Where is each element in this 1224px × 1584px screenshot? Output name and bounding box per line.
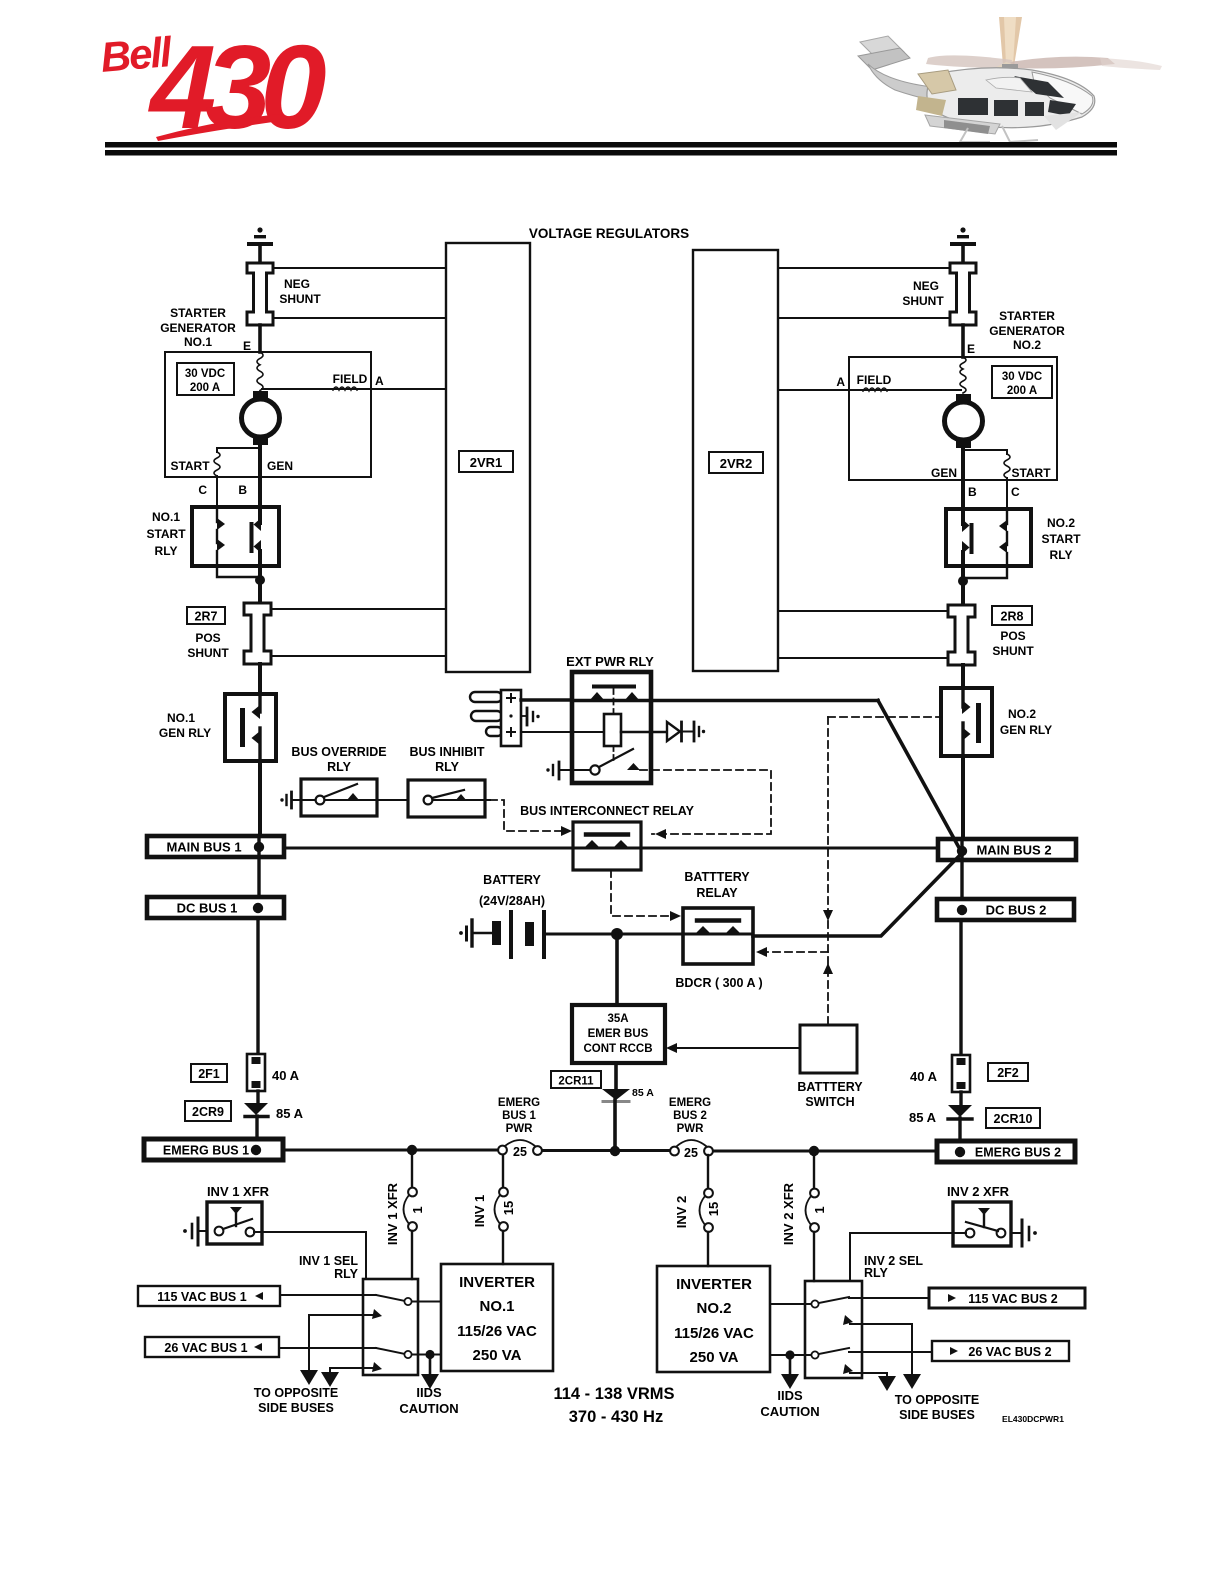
INV 2 SEL RLY box bbox=[805, 1281, 862, 1378]
label TO OPPOSITE SIDE BUSES right bbox=[895, 1393, 980, 1422]
115 VAC BUS 1 bar bbox=[138, 1286, 280, 1306]
label BATTERY (24V/28AH) bbox=[479, 873, 545, 908]
30 VDC 200 A rating box bbox=[177, 363, 234, 395]
dashed arrow into interconnect right side bbox=[655, 829, 666, 839]
2R8 designator box bbox=[992, 606, 1032, 625]
ground at plug center pin bbox=[521, 708, 540, 725]
label STARTER GENERATOR NO.2 bbox=[989, 309, 1065, 352]
svg-text:EMERG BUS 1: EMERG BUS 1 bbox=[163, 1144, 249, 1158]
label STARTER GENERATOR NO.1 bbox=[160, 306, 236, 349]
INVERTER NO.2 box bbox=[657, 1266, 770, 1372]
sel rly 1 contact row 1 bbox=[363, 1295, 441, 1305]
svg-text:NEG: NEG bbox=[284, 277, 310, 291]
wire battery switch to RCCB with arrow bbox=[666, 1043, 800, 1053]
svg-text:E: E bbox=[967, 342, 975, 356]
30 VDC 200 A rating box (right) bbox=[992, 366, 1052, 398]
svg-text:SHUNT: SHUNT bbox=[279, 292, 321, 306]
svg-text:2R7: 2R7 bbox=[195, 610, 218, 624]
Bell 430 logo bbox=[99, 21, 327, 154]
breaker INV 1 XFR 1 (vertical) bbox=[404, 1150, 417, 1279]
label NO.2 GEN RLY bbox=[1000, 707, 1052, 737]
svg-text:START: START bbox=[170, 459, 210, 473]
ground for inv 2 xfr switch bbox=[1011, 1220, 1037, 1246]
header double rule bbox=[105, 142, 1117, 156]
diode 2CR10 bbox=[948, 1105, 972, 1119]
label NO.1 GEN RLY bbox=[159, 711, 211, 740]
wire diode to emerg bus 1 bbox=[255, 1116, 258, 1140]
svg-text:2R8: 2R8 bbox=[1001, 610, 1024, 624]
svg-text:250 VA: 250 VA bbox=[690, 1349, 739, 1366]
label BUS INHIBIT RLY bbox=[410, 745, 485, 774]
wire plug top to ext pwr rly bbox=[521, 698, 572, 701]
label EMERG BUS 2 PWR bbox=[669, 1097, 711, 1135]
INV 1 SEL RLY box bbox=[363, 1279, 418, 1375]
2R7 designator box bbox=[187, 607, 225, 624]
svg-text:EMERG: EMERG bbox=[669, 1097, 711, 1109]
label BATTTERY RELAY bbox=[684, 870, 750, 900]
EXT PWR RLY box bbox=[572, 672, 651, 783]
ground G2 (top right) bbox=[950, 227, 976, 263]
start coil squiggle (right) bbox=[1004, 454, 1010, 478]
label INV 2 SEL RLY bbox=[864, 1254, 923, 1280]
svg-text:NO.2: NO.2 bbox=[696, 1300, 731, 1317]
svg-text:30 VDC: 30 VDC bbox=[185, 368, 225, 380]
diode at coil output bbox=[667, 722, 692, 741]
main bus tie wire (bus1 to bus2) bbox=[284, 847, 938, 850]
motor M2 bbox=[945, 394, 983, 448]
svg-text:VOLTAGE REGULATORS: VOLTAGE REGULATORS bbox=[529, 226, 689, 241]
2VR2 designator box bbox=[709, 452, 763, 473]
svg-text:A: A bbox=[375, 374, 384, 388]
svg-text:CAUTION: CAUTION bbox=[760, 1404, 819, 1419]
svg-text:2F2: 2F2 bbox=[997, 1066, 1019, 1080]
sel rly 2 contact row 2 (arrow) bbox=[843, 1315, 862, 1325]
BATTERY SWITCH box bbox=[800, 1025, 857, 1073]
svg-text:MAIN BUS 1: MAIN BUS 1 bbox=[166, 840, 241, 855]
sel rly 1 contact row 3 bbox=[363, 1348, 441, 1358]
MAIN BUS 2 bar bbox=[938, 839, 1076, 860]
svg-text:NO.1: NO.1 bbox=[184, 335, 212, 349]
EMERG BUS 2 bar bbox=[937, 1141, 1075, 1162]
svg-text:15: 15 bbox=[706, 1202, 721, 1216]
sel rly 1 contact row 2 (arrow) bbox=[363, 1309, 382, 1319]
label NEG SHUNT (right) bbox=[902, 279, 944, 308]
svg-text:200 A: 200 A bbox=[190, 382, 220, 394]
svg-text:BUS INHIBIT: BUS INHIBIT bbox=[410, 745, 485, 759]
field wire to 2VR1 bbox=[262, 388, 446, 390]
battery relay output wire bbox=[753, 853, 962, 936]
svg-text:BUS 1: BUS 1 bbox=[502, 1110, 536, 1122]
wire 115 vac bus 1 to sel rly bbox=[280, 1294, 363, 1296]
BUS INHIBIT RLY box bbox=[408, 780, 485, 817]
gen rly 1 contact bbox=[240, 694, 260, 761]
junction dot inverter1 input bbox=[425, 1350, 434, 1359]
wire neg shunt to 2VR1 (upper) bbox=[274, 267, 446, 269]
wire inv1 xfr switch to sel rly bbox=[254, 1232, 366, 1279]
junction dot 2CR11 tap bbox=[610, 1146, 620, 1156]
start relay contact C path bbox=[217, 507, 225, 566]
start branch wire bbox=[217, 448, 260, 452]
svg-text:85 A: 85 A bbox=[909, 1110, 937, 1125]
battery relay bar bbox=[697, 918, 739, 922]
svg-text:A: A bbox=[836, 375, 845, 389]
svg-text:TO OPPOSITE: TO OPPOSITE bbox=[895, 1393, 980, 1407]
svg-text:114 - 138 VRMS: 114 - 138 VRMS bbox=[553, 1385, 674, 1403]
svg-text:BUS INTERCONNECT RELAY: BUS INTERCONNECT RELAY bbox=[520, 804, 695, 818]
pos shunt 2R7 (I-beam) bbox=[244, 603, 271, 664]
NO.1 START RLY box bbox=[192, 507, 279, 566]
wire sel rly to 26 vac bus 2 bbox=[862, 1351, 932, 1353]
inv 1 xfr switch contacts bbox=[215, 1207, 255, 1236]
opposite-bus wires right bbox=[862, 1324, 921, 1391]
dashed interconnect bottom to battery relay bbox=[611, 870, 674, 916]
svg-text:SWITCH: SWITCH bbox=[805, 1095, 854, 1109]
emergency bus tie wire bbox=[283, 1150, 937, 1151]
svg-text:1: 1 bbox=[812, 1206, 827, 1213]
junction below start relay 2 bbox=[958, 566, 1007, 605]
start relay 2 contact B path with bar bbox=[962, 509, 974, 566]
armature coil from E (right) bbox=[960, 357, 966, 393]
svg-text:2F1: 2F1 bbox=[198, 1067, 220, 1081]
INV 2 XFR switch box bbox=[953, 1202, 1011, 1246]
relay aux switch bbox=[590, 749, 640, 775]
diode 2CR11 bbox=[602, 1089, 630, 1102]
svg-text:NO.1: NO.1 bbox=[167, 711, 195, 725]
dashed arrow into interconnect left side bbox=[561, 826, 572, 836]
svg-text:1: 1 bbox=[410, 1206, 425, 1213]
motor M1 (circle with terminals) bbox=[242, 391, 280, 445]
svg-text:STARTER: STARTER bbox=[170, 306, 226, 320]
label IIDS CAUTION left bbox=[399, 1385, 458, 1416]
svg-text:INV 1 XFR: INV 1 XFR bbox=[385, 1182, 400, 1245]
svg-text:EXT PWR RLY: EXT PWR RLY bbox=[566, 654, 654, 669]
2F1 designator box bbox=[191, 1064, 227, 1082]
svg-text:RLY: RLY bbox=[155, 544, 178, 558]
svg-text:SHUNT: SHUNT bbox=[992, 644, 1034, 658]
start relay contact B path with bar bbox=[250, 507, 262, 566]
start coil to box bottom (right) bbox=[1006, 478, 1008, 509]
label EMERG BUS 1 PWR bbox=[498, 1097, 540, 1135]
svg-text:B: B bbox=[238, 483, 247, 497]
field wire from 2VR2 bbox=[778, 389, 961, 391]
svg-text:FIELD: FIELD bbox=[857, 373, 892, 387]
start relay 2 contact C path bbox=[999, 509, 1007, 566]
svg-text:115/26 VAC: 115/26 VAC bbox=[674, 1325, 754, 1342]
sel rly 2 contact row 3 bbox=[811, 1348, 862, 1359]
svg-text:BATTTERY: BATTTERY bbox=[684, 870, 750, 884]
svg-text:35A: 35A bbox=[607, 1013, 628, 1025]
svg-text:E: E bbox=[243, 339, 251, 353]
svg-text:115/26 VAC: 115/26 VAC bbox=[457, 1323, 537, 1340]
opposite-bus wires left bbox=[300, 1315, 363, 1387]
start branch wire (right) bbox=[963, 450, 1007, 454]
svg-text:2CR9: 2CR9 bbox=[192, 1105, 224, 1119]
2F2 designator box bbox=[988, 1063, 1028, 1081]
wire pos shunt to 2VR1 (upper) bbox=[271, 608, 446, 610]
diode 2CR9 bbox=[244, 1103, 268, 1117]
svg-text:26 VAC BUS 1: 26 VAC BUS 1 bbox=[164, 1341, 247, 1355]
wire gen rly to main bus 1 bbox=[258, 761, 262, 838]
svg-text:250 VA: 250 VA bbox=[473, 1347, 522, 1364]
battery relay arrows bbox=[695, 926, 741, 934]
svg-text:MAIN BUS 2: MAIN BUS 2 bbox=[976, 843, 1051, 858]
dashed arrow into battery relay left bbox=[670, 911, 681, 921]
svg-text:SHUNT: SHUNT bbox=[187, 646, 229, 660]
wire pos shunt to 2VR1 (lower) bbox=[271, 655, 446, 657]
label 114 - 138 VRMS / 370 - 430 Hz bbox=[553, 1385, 674, 1426]
svg-text:BATTTERY: BATTTERY bbox=[797, 1080, 863, 1094]
sel rly 2 contact row 1 bbox=[811, 1297, 862, 1308]
115 VAC BUS 2 bar bbox=[929, 1288, 1085, 1308]
2VR1 designator box bbox=[459, 451, 513, 472]
svg-text:PWR: PWR bbox=[506, 1123, 534, 1135]
fuse 2F2 symbol bbox=[952, 1055, 970, 1092]
wire neg shunt to 2VR1 (lower) bbox=[274, 317, 446, 319]
svg-text:25: 25 bbox=[513, 1145, 527, 1159]
svg-text:CAUTION: CAUTION bbox=[399, 1401, 458, 1416]
svg-text:BUS 2: BUS 2 bbox=[673, 1110, 707, 1122]
dashed bus inhibit to interconnect bbox=[490, 800, 565, 831]
junction dot emerg bus 2 bbox=[955, 1147, 965, 1157]
svg-text:STARTER: STARTER bbox=[999, 309, 1055, 323]
dashed control trunk x828 bbox=[823, 717, 833, 1025]
switch ground (left of box) bbox=[546, 762, 589, 779]
breaker 25 (emerg bus 1 pwr) bbox=[498, 1140, 542, 1159]
wire dc bus 2 to fuse 2F2 bbox=[959, 920, 962, 1055]
wire gen rly 2 to main bus 2 bbox=[961, 756, 965, 840]
junction dot dc bus 2 bbox=[957, 905, 967, 915]
dashed actuator link bbox=[613, 688, 615, 714]
label POS SHUNT (right) bbox=[992, 629, 1034, 658]
svg-text:SIDE BUSES: SIDE BUSES bbox=[258, 1401, 334, 1415]
svg-text:RLY: RLY bbox=[334, 1267, 359, 1281]
wire shunt to E (right) bbox=[961, 325, 965, 357]
svg-text:GENERATOR: GENERATOR bbox=[989, 324, 1065, 338]
svg-text:START: START bbox=[1041, 532, 1081, 546]
wire RCCB to diode 2CR11 bbox=[614, 1063, 618, 1089]
svg-text:26 VAC BUS 2: 26 VAC BUS 2 bbox=[968, 1345, 1051, 1359]
svg-text:INV 1 XFR: INV 1 XFR bbox=[207, 1184, 270, 1199]
svg-text:40 A: 40 A bbox=[910, 1069, 938, 1084]
breaker INV 2 XFR 1 (vertical) bbox=[806, 1151, 819, 1281]
svg-text:NO.1: NO.1 bbox=[479, 1298, 514, 1315]
svg-text:RLY: RLY bbox=[327, 760, 352, 774]
svg-text:RLY: RLY bbox=[435, 760, 460, 774]
ext pwr rly top contact bar bbox=[594, 685, 634, 689]
battery ground bbox=[459, 920, 492, 946]
svg-text:30 VDC: 30 VDC bbox=[1002, 371, 1042, 383]
wire 2VR2 to pos shunt (upper) bbox=[778, 610, 948, 612]
wire main bus 2 to dc bus 2 bbox=[960, 839, 963, 900]
svg-text:BATTERY: BATTERY bbox=[483, 873, 541, 887]
svg-text:INV 2 XFR: INV 2 XFR bbox=[781, 1182, 796, 1245]
interconnect relay bar bbox=[586, 832, 628, 836]
label IIDS CAUTION right bbox=[760, 1388, 819, 1419]
sel rly 2 contact row 4 (arrow) bbox=[843, 1364, 862, 1374]
starter generator no.2 box bbox=[849, 357, 1057, 480]
svg-text:(24V/28AH): (24V/28AH) bbox=[479, 894, 545, 908]
wire B motor to start relay (right) bbox=[961, 448, 965, 509]
svg-text:115 VAC BUS 2: 115 VAC BUS 2 bbox=[968, 1292, 1057, 1306]
wire diode 2CR11 to emerg wire bbox=[613, 1100, 617, 1151]
start coil to box bottom bbox=[216, 476, 218, 507]
svg-text:2VR2: 2VR2 bbox=[720, 456, 753, 471]
35A EMER BUS CONT RCCB box bbox=[572, 1005, 665, 1063]
2CR9 designator box bbox=[185, 1101, 231, 1121]
svg-text:2CR11: 2CR11 bbox=[558, 1076, 594, 1088]
junction below start relay bbox=[217, 566, 265, 603]
wire 2VR2 to neg shunt (upper) bbox=[778, 267, 950, 269]
wire fuse to diode bbox=[256, 1091, 259, 1103]
junction dot emerg bus 1 bbox=[251, 1145, 261, 1155]
svg-text:INVERTER: INVERTER bbox=[459, 1274, 535, 1291]
voltage regulator 2VR1 box bbox=[446, 243, 530, 672]
inv 2 xfr switch contacts bbox=[966, 1208, 1006, 1237]
svg-text:IIDS: IIDS bbox=[416, 1385, 442, 1400]
svg-text:15: 15 bbox=[501, 1201, 516, 1215]
26 VAC BUS 2 bar bbox=[932, 1341, 1069, 1361]
coil dashed link to switch bbox=[613, 746, 615, 762]
wire 2VR2 to pos shunt (lower) bbox=[778, 657, 948, 659]
svg-text:START: START bbox=[1011, 466, 1051, 480]
svg-text:FIELD: FIELD bbox=[333, 372, 368, 386]
INVERTER NO.1 box bbox=[441, 1264, 553, 1371]
svg-text:85 A: 85 A bbox=[276, 1106, 304, 1121]
svg-text:PWR: PWR bbox=[677, 1123, 705, 1135]
svg-text:CONT RCCB: CONT RCCB bbox=[584, 1043, 653, 1055]
breaker INV 2 15 (vertical) bbox=[700, 1155, 713, 1266]
NO.2 START RLY box bbox=[946, 509, 1031, 566]
svg-text:START: START bbox=[146, 527, 186, 541]
wire B (motor to start relay) bbox=[258, 445, 262, 507]
svg-text:INV 2 XFR: INV 2 XFR bbox=[947, 1184, 1010, 1199]
svg-text:POS: POS bbox=[1000, 629, 1025, 643]
26 VAC BUS 1 bar bbox=[145, 1337, 279, 1357]
svg-text:NEG: NEG bbox=[913, 279, 939, 293]
svg-text:115 VAC BUS 1: 115 VAC BUS 1 bbox=[157, 1290, 246, 1304]
field coil squiggle (right) bbox=[863, 388, 887, 391]
wire fuse 2 to diode bbox=[959, 1092, 962, 1105]
breaker 25 (emerg bus 2 pwr) bbox=[670, 1140, 713, 1160]
IIDS arrow left bbox=[421, 1354, 439, 1389]
dashed branch to battery relay right bbox=[756, 947, 828, 957]
wire ext pwr to main bus 2 (horizontal) bbox=[651, 699, 878, 703]
svg-text:NO.2: NO.2 bbox=[1013, 338, 1041, 352]
svg-text:GEN RLY: GEN RLY bbox=[1000, 723, 1052, 737]
svg-text:BDCR ( 300 A ): BDCR ( 300 A ) bbox=[675, 976, 762, 990]
wire inv2 xfr switch to sel rly bbox=[850, 1233, 966, 1281]
label INV 1 SEL RLY bbox=[299, 1254, 359, 1281]
svg-text:C: C bbox=[198, 483, 207, 497]
helicopter image bbox=[858, 17, 1162, 142]
svg-text:C: C bbox=[1011, 485, 1020, 499]
wire plug bottom to coil bbox=[521, 731, 604, 733]
field coil squiggle bbox=[333, 387, 357, 390]
through wire in relay bbox=[572, 699, 651, 703]
svg-text:INV 1 SEL: INV 1 SEL bbox=[299, 1254, 358, 1268]
wire sel rly to 115 vac bus 2 bbox=[862, 1297, 929, 1299]
NO.1 GEN RLY box bbox=[225, 694, 276, 761]
svg-text:40 A: 40 A bbox=[272, 1068, 300, 1083]
label POS SHUNT bbox=[187, 631, 229, 660]
wire main bus to dc bus bbox=[257, 836, 260, 897]
neg shunt 2R6 (I-beam) bbox=[950, 263, 976, 325]
ground G1 (top left) bbox=[247, 227, 273, 263]
fuse 2F1 symbol bbox=[247, 1054, 265, 1091]
label TO OPPOSITE SIDE BUSES left bbox=[254, 1386, 339, 1415]
svg-text:GEN: GEN bbox=[931, 466, 957, 480]
battery cells bbox=[492, 912, 544, 957]
bus inhibit switch bbox=[424, 790, 490, 804]
svg-text:SHUNT: SHUNT bbox=[902, 294, 944, 308]
svg-text:DC BUS 2: DC BUS 2 bbox=[986, 903, 1047, 918]
pos shunt 2R8 (I-beam) bbox=[948, 605, 975, 665]
label NO.1 START RLY bbox=[146, 510, 186, 558]
wire inverter2 to sel rly row3 bbox=[770, 1354, 811, 1356]
junction dot dc bus 1 bbox=[253, 903, 263, 913]
svg-text:GEN RLY: GEN RLY bbox=[159, 726, 211, 740]
svg-text:EMERG: EMERG bbox=[498, 1097, 540, 1109]
neg shunt 2R5 (I-beam) bbox=[247, 263, 273, 325]
label NEG SHUNT bbox=[279, 277, 321, 306]
battery output wire bbox=[546, 933, 683, 936]
svg-text:IIDS: IIDS bbox=[777, 1388, 803, 1403]
wire shunt to gen rly (right) bbox=[961, 665, 965, 688]
start coil squiggle bbox=[214, 452, 220, 476]
NO.2 GEN RLY box bbox=[941, 688, 992, 756]
wire inverter2 to sel rly row1 bbox=[770, 1303, 811, 1305]
breaker INV 1 15 (vertical) bbox=[495, 1155, 508, 1264]
wire ext pwr diagonal to main bus 2 bbox=[878, 701, 962, 854]
svg-text:B: B bbox=[968, 485, 977, 499]
svg-text:INV 1: INV 1 bbox=[472, 1195, 487, 1228]
voltage regulator 2VR2 box bbox=[693, 250, 778, 671]
INV 1 XFR switch box bbox=[207, 1202, 262, 1244]
gen rly 2 contact bbox=[962, 688, 981, 756]
interconnect relay arrows bbox=[584, 840, 629, 848]
svg-text:GENERATOR: GENERATOR bbox=[160, 321, 236, 335]
wire shunt to E bbox=[258, 325, 262, 352]
BUS OVERRIDE RLY box bbox=[301, 779, 377, 816]
svg-text:SIDE BUSES: SIDE BUSES bbox=[899, 1408, 975, 1422]
svg-text:200 A: 200 A bbox=[1007, 385, 1037, 397]
2CR10 designator box bbox=[986, 1108, 1040, 1128]
svg-text:EMER BUS: EMER BUS bbox=[588, 1028, 649, 1040]
junction dot inv2 xfr tap bbox=[809, 1146, 819, 1156]
svg-text:85 A: 85 A bbox=[632, 1087, 654, 1099]
svg-text:370 - 430 Hz: 370 - 430 Hz bbox=[569, 1408, 663, 1426]
svg-text:INV 2: INV 2 bbox=[674, 1196, 689, 1229]
sel rly 1 contact row 4 (arrow) bbox=[363, 1362, 382, 1372]
svg-text:RLY: RLY bbox=[1050, 548, 1073, 562]
relay coil bbox=[604, 714, 621, 746]
wire shunt to gen rly bbox=[258, 664, 262, 694]
battery relay through wire bbox=[683, 933, 753, 936]
wire 2VR2 to neg shunt (lower) bbox=[778, 317, 950, 319]
wire 26 vac bus 1 to sel rly bbox=[279, 1347, 363, 1349]
svg-text:NO.2: NO.2 bbox=[1008, 707, 1036, 721]
wire diode 2 to emerg bus 2 bbox=[958, 1118, 961, 1142]
junction dot inv1 xfr tap bbox=[407, 1145, 417, 1155]
label BATTTERY SWITCH bbox=[797, 1080, 863, 1109]
svg-text:2CR10: 2CR10 bbox=[994, 1112, 1033, 1126]
coil wire to right bbox=[621, 731, 667, 734]
2CR11 designator box bbox=[551, 1071, 601, 1088]
ground for bus override bbox=[280, 792, 314, 808]
external power receptacle plug bbox=[470, 690, 521, 746]
svg-text:EL430DCPWR1: EL430DCPWR1 bbox=[1002, 1414, 1064, 1424]
starter generator no.1 box bbox=[165, 352, 371, 477]
